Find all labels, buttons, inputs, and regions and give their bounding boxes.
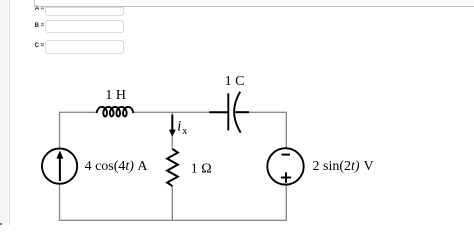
current source I1 circle: [42, 149, 77, 184]
left scrollbar strip: [0, 0, 10, 225]
wire inductor to capacitor: [133, 111, 210, 113]
svg-text:x: x: [182, 126, 187, 137]
bottom-left dark mark: [0, 223, 2, 225]
input A: [45, 7, 125, 16]
svg-text:2 sin(2t) V: 2 sin(2t) V: [313, 159, 374, 174]
voltage source minus sign: [282, 154, 291, 156]
capacitor C1 left plate: [227, 93, 229, 130]
svg-text:i: i: [177, 118, 181, 134]
current ix arrow: [169, 115, 176, 137]
wire bottom: [59, 219, 287, 221]
voltage source plus sign: [281, 172, 291, 182]
svg-text:4 cos(4t) A: 4 cos(4t) A: [85, 159, 149, 174]
input B: [45, 20, 125, 34]
label C: [35, 43, 45, 49]
current source I1 arrow: [59, 158, 61, 181]
svg-text:1 C: 1 C: [225, 74, 245, 89]
label B: [35, 23, 45, 29]
top panel bottom border: [34, 6, 474, 7]
inductor L1 coil: [97, 107, 133, 117]
capacitor C1 left lead: [209, 111, 228, 113]
label A: [35, 6, 44, 12]
wire top-left segment: [60, 111, 98, 113]
wire right vertical upper: [285, 112, 287, 149]
top panel left border stub: [34, 0, 35, 6]
wire left vertical upper: [59, 112, 61, 149]
wire middle vertical upper: [171, 112, 173, 149]
input C: [45, 40, 125, 54]
voltage source V1 circle: [267, 148, 303, 184]
wire right vertical lower: [285, 185, 287, 221]
wire capacitor to top-right corner: [248, 111, 286, 113]
wire middle vertical lower: [171, 186, 173, 220]
svg-text:1 Ω: 1 Ω: [191, 162, 212, 177]
resistor R1 zigzag: [167, 149, 178, 186]
wire left vertical lower: [59, 184, 61, 221]
capacitor C1 right lead: [235, 111, 249, 113]
capacitor C1 curved plate: [234, 92, 241, 133]
svg-text:1 H: 1 H: [105, 88, 126, 103]
